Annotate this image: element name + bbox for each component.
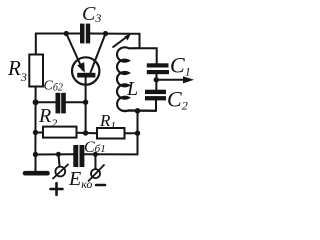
battery plus terminal xyxy=(55,167,65,177)
wire bottom rail right xyxy=(84,153,137,155)
node dot plus-tap xyxy=(56,152,61,157)
svg-text:Eко: Eко xyxy=(68,168,92,191)
capacitor Cb1 xyxy=(73,145,84,167)
node dot base-Cb2 xyxy=(83,100,88,105)
wire base vertical xyxy=(85,77,87,133)
resistor R2 xyxy=(43,127,77,138)
ground xyxy=(25,171,48,176)
node dot rail-R2 xyxy=(33,130,38,135)
capacitor Cb2 xyxy=(56,93,66,114)
svg-text:C3: C3 xyxy=(82,3,101,25)
wire left rail to ground xyxy=(35,155,37,172)
node dot rail-ground xyxy=(33,152,38,157)
svg-text:C2: C2 xyxy=(167,87,188,113)
wire R2 right to base xyxy=(77,132,86,134)
wire R2 left xyxy=(36,132,44,134)
minus sign xyxy=(96,184,105,187)
node dot collector-top xyxy=(103,31,108,36)
wire battery minus tap xyxy=(94,154,96,169)
variable inductor arrow xyxy=(113,36,129,48)
wire bottom rail left xyxy=(35,153,73,155)
transistor VT circle xyxy=(72,57,99,84)
wire top rail right of C3 xyxy=(90,33,140,35)
wire tank top branch xyxy=(140,48,157,63)
inductor L xyxy=(117,47,156,111)
wire Cb2 to base xyxy=(65,101,85,103)
wire right lower vertical xyxy=(137,111,139,155)
plus sign xyxy=(51,183,63,195)
wire C1 to output node xyxy=(155,74,157,90)
svg-text:R3: R3 xyxy=(7,56,27,84)
node dot rail-Cb2 xyxy=(33,99,39,105)
transistor base bar xyxy=(77,73,95,78)
transistor emitter lead with arrow xyxy=(66,34,83,71)
wire C2 bottom to tank bottom xyxy=(123,100,157,111)
battery minus terminal xyxy=(91,169,100,178)
resistor R1 xyxy=(97,128,125,139)
wire right rail top xyxy=(139,34,141,48)
capacitor C3 xyxy=(80,24,90,44)
output arrow xyxy=(156,79,185,81)
svg-text:Cб1: Cб1 xyxy=(84,139,106,156)
svg-text:L: L xyxy=(126,78,138,100)
wire R1 right xyxy=(125,132,138,134)
node dot minus-tap xyxy=(93,152,98,157)
wire R1 left xyxy=(86,132,97,134)
node dot tank-bottom xyxy=(135,108,141,114)
capacitor C1 xyxy=(147,63,169,74)
capacitor C2 xyxy=(145,90,166,101)
node dot base-R1R2 xyxy=(83,130,88,135)
wire battery plus tap xyxy=(58,154,59,166)
wire left rail upper xyxy=(35,34,37,55)
wire left rail middle xyxy=(34,87,36,155)
svg-text:Cб2: Cб2 xyxy=(44,79,63,94)
resistor R3 xyxy=(29,55,43,87)
transistor collector lead xyxy=(90,34,105,74)
node dot emitter-top xyxy=(64,31,69,36)
svg-text:R2: R2 xyxy=(38,105,57,130)
node dot output xyxy=(154,77,159,82)
svg-text:R1: R1 xyxy=(99,111,116,132)
wire Cb2 horizontal xyxy=(36,101,56,103)
node dot R1-right xyxy=(135,131,140,136)
wire top rail xyxy=(36,33,80,35)
svg-text:C1: C1 xyxy=(170,53,191,79)
